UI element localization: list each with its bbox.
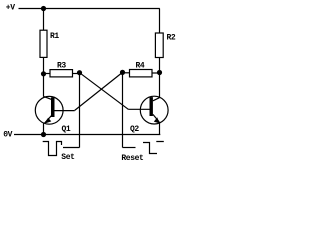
wire: Set input vertical from R3 node [79, 73, 81, 148]
resistor R1 [40, 30, 47, 57]
wire: Set input horizontal [63, 147, 80, 149]
0V rail wire [14, 134, 160, 136]
wire: Q1 emitter to 0V rail [43, 123, 45, 134]
wire: Reset input vertical from R4 node [122, 72, 124, 147]
resistor R4 [123, 72, 130, 74]
wire: R2 to node B [159, 58, 161, 73]
cross-coupling wire: R4 node to Q1 base [75, 72, 123, 110]
svg-text:R3: R3 [57, 62, 66, 71]
junction dot: top rail / R1 [41, 6, 46, 11]
wire: R1 to node A [43, 57, 45, 74]
svg-text:Set: Set [61, 153, 75, 162]
svg-text:+V: +V [6, 4, 15, 13]
cross-coupling wire: R3 node to Q2 base [80, 73, 129, 110]
junction dot: node A (Q1 collector / R3) [41, 71, 46, 76]
wire: node B down to Q2 collector [159, 73, 161, 98]
svg-text:Q1: Q1 [62, 125, 71, 134]
wire: node A down to Q1 collector [43, 74, 45, 97]
wire: +V top rail [19, 8, 160, 10]
Reset pulse waveform symbol [143, 142, 164, 154]
transistor Q2 [128, 96, 168, 134]
wire: top rail down to R2 [159, 9, 161, 34]
svg-text:Q2: Q2 [130, 125, 139, 134]
junction dot: R4 left / Reset / cross wire [120, 70, 125, 75]
Set pulse waveform symbol [43, 142, 62, 156]
wire: top rail down to R1 [43, 9, 45, 31]
junction dot: Q1 emitter / 0V rail [41, 132, 46, 137]
svg-text:R1: R1 [50, 32, 59, 41]
resistor R2 [155, 33, 163, 58]
svg-text:R4: R4 [136, 62, 145, 71]
transistor Q1 [35, 96, 74, 134]
svg-text:R2: R2 [167, 34, 176, 43]
resistor R3 [44, 73, 51, 75]
junction dot: node B (R4 right / R2 / Q2 collector) [157, 70, 162, 75]
svg-text:0V: 0V [3, 130, 12, 139]
wire: Reset input horizontal [123, 147, 136, 149]
wire: Q2 emitter to 0V rail [159, 122, 161, 135]
svg-text:Reset: Reset [121, 154, 144, 163]
junction dot: R3 right / Set / cross wire [77, 70, 82, 75]
